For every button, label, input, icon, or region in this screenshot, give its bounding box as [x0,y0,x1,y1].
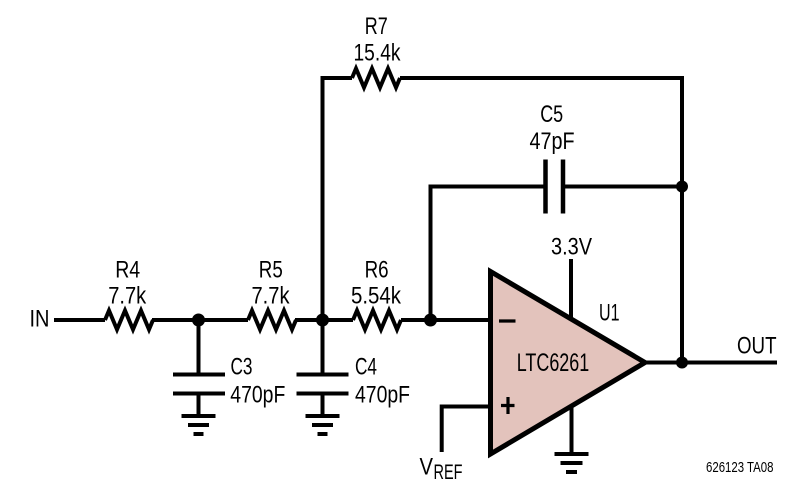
capacitor C3 [197,320,201,373]
svg-text:LTC6261: LTC6261 [517,349,590,377]
wire feedback top and right vertical [400,78,682,363]
svg-text:R5: R5 [259,257,283,284]
svg-text:R6: R6 [365,257,389,284]
node junction R4/C3 [192,314,205,327]
svg-text:REF: REF [434,461,463,484]
op-amp U1 [491,272,646,455]
op-amp inverting pin - [499,319,516,322]
svg-text:15.4k: 15.4k [354,40,402,67]
op-amp non-inverting pin + [501,397,515,414]
wire VREF to non-inverting input [442,407,490,453]
wire C5 branch left [431,187,544,321]
svg-text:OUT: OUT [737,332,777,359]
svg-text:7.7k: 7.7k [108,283,147,310]
svg-text:C5: C5 [540,101,563,128]
svg-text:V: V [420,454,434,481]
svg-text:47pF: 47pF [530,128,575,155]
wire IN to R4 [54,318,105,322]
svg-text:3.3V: 3.3V [551,233,592,260]
wire R4 to R5 [152,318,248,322]
wire feedback left vertical [323,78,353,320]
node junction C5/feedback [676,181,688,193]
svg-text:470pF: 470pF [230,382,285,409]
svg-text:C3: C3 [231,354,253,381]
power 3.3V [569,259,573,318]
svg-text:U1: U1 [599,299,620,326]
wire output [646,361,777,365]
svg-text:C4: C4 [355,354,377,381]
svg-text:R7: R7 [365,13,388,40]
resistor R4 [105,311,153,330]
svg-text:626123 TA08: 626123 TA08 [706,459,774,476]
svg-text:7.7k: 7.7k [252,283,291,310]
capacitor C5 [543,160,548,214]
capacitor C4 [321,320,325,373]
resistor R7 [352,69,400,88]
svg-text:470pF: 470pF [355,382,410,409]
svg-text:R4: R4 [115,257,140,284]
ground under C4 [306,416,340,434]
node junction R6/C5 [424,314,437,327]
svg-text:5.54k: 5.54k [351,283,402,310]
resistor R5 [248,311,296,330]
wire R5 to R6 [295,318,353,322]
node junction output/feedback [676,357,688,369]
resistor R6 [353,311,401,330]
node junction R5/R7/C4 [316,314,329,327]
wire C5 to feedback node [565,185,682,189]
ground under C3 [182,416,216,434]
svg-text:IN: IN [30,306,50,333]
wire R6 to op-amp inverting input [401,318,490,322]
ground under op-amp [570,407,574,454]
